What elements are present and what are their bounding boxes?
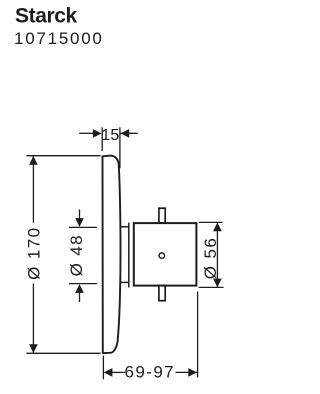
svg-text:Ø 48: Ø 48 xyxy=(67,234,86,276)
svg-text:5: 5 xyxy=(110,127,119,144)
dim Ø170: bottom arrowhead xyxy=(29,344,38,353)
handle skirt edge line xyxy=(128,223,130,288)
svg-text:69-97: 69-97 xyxy=(125,363,175,382)
dim 15: right arrowhead xyxy=(120,129,129,138)
connector sleeve bottom line xyxy=(120,281,129,283)
dim Ø170: dimension line upper segment xyxy=(32,156,34,223)
dim Ø170: bottom extension line xyxy=(26,352,100,354)
dim Ø48: top arrowhead xyxy=(75,218,84,227)
dim Ø48: top arrow stem xyxy=(79,210,81,220)
dim Ø56: bottom extension line xyxy=(199,286,224,288)
handle square body (Ø56) xyxy=(134,223,197,286)
escutcheon plate (side profile, Ø170) xyxy=(103,156,121,354)
dim Ø56: bottom arrowhead xyxy=(213,279,222,288)
dim 69-97: dimension line left segment xyxy=(112,371,126,373)
svg-text:Ø 170: Ø 170 xyxy=(24,227,43,280)
dim 15: left arrowhead xyxy=(93,129,102,138)
dim 15: right arrow stem xyxy=(120,132,137,134)
dim Ø48: bottom arrow stem xyxy=(79,292,81,302)
svg-text:Starck: Starck xyxy=(15,5,78,28)
connector sleeve top line xyxy=(120,226,129,228)
dim Ø48: bottom arrowhead xyxy=(75,284,84,293)
svg-text:Ø 56: Ø 56 xyxy=(201,237,220,279)
svg-text:1: 1 xyxy=(101,127,110,144)
dim 69-97: dimension line right segment xyxy=(176,371,198,373)
dim 15: left extension line xyxy=(101,127,103,151)
dim Ø48: bottom tick line xyxy=(69,283,97,285)
handle bottom tab xyxy=(159,286,165,301)
dim 15: right extension line xyxy=(119,127,121,168)
dim Ø56: dimension line xyxy=(216,223,218,288)
dim 69-97: left extension line xyxy=(102,356,104,380)
dim Ø170: top arrowhead xyxy=(29,156,38,165)
handle top tab xyxy=(159,208,165,223)
dim 69-97: right arrowhead xyxy=(188,368,197,377)
dim Ø56: top arrowhead xyxy=(213,222,222,231)
dim Ø56: top extension line xyxy=(199,221,223,223)
svg-text:10715000: 10715000 xyxy=(14,29,104,48)
handle center screw dot xyxy=(159,253,164,258)
dim Ø170: top extension line xyxy=(26,155,100,157)
dim Ø170: dimension line lower segment xyxy=(32,284,34,353)
dim 69-97: right extension line xyxy=(197,292,199,378)
dim 15: left arrow stem xyxy=(79,132,93,134)
dim Ø48: top tick line xyxy=(69,226,97,228)
dim 69-97: left arrowhead xyxy=(104,368,113,377)
